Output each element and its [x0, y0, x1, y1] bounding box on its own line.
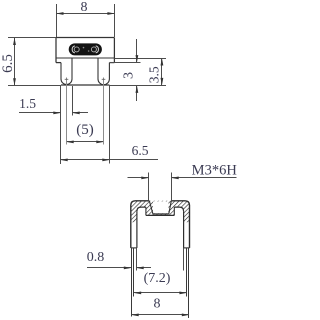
centerline right slot	[103, 80, 105, 145]
wire plate left edge	[55, 38, 57, 63]
arrow 0.8 right-pointing	[124, 267, 132, 270]
svg-text:1.5: 1.5	[19, 96, 36, 111]
obround slot filled	[69, 43, 102, 55]
dimension 1.5 right line	[73, 112, 89, 114]
arrow 3 down-pointing	[136, 55, 139, 63]
arrow 0.8 left-pointing	[136, 267, 144, 270]
extension line dim8 right	[114, 4, 116, 37]
section outer profile left	[131, 201, 150, 248]
arrow dim8 right	[107, 12, 115, 15]
svg-text:6.5: 6.5	[132, 143, 149, 158]
section outer profile right	[171, 201, 189, 248]
leg step left	[131, 247, 137, 249]
extension plate bottom right for 3.5	[114, 58, 166, 60]
arrow 6.5B left	[60, 159, 67, 162]
obround cap arc right	[96, 46, 99, 53]
extension leg inner face left for 0.8	[136, 248, 138, 271]
dimension line 8 bottom	[132, 314, 190, 316]
slot left outer wall	[60, 63, 62, 79]
slot left inner wall	[71, 58, 73, 79]
thread boss bottom	[146, 214, 174, 216]
arrow (5) right	[96, 141, 104, 144]
centerline left slot	[66, 80, 68, 145]
thread hole bottom	[153, 213, 169, 215]
slot left bottom arc	[61, 79, 72, 85]
lower leg left inner line	[133, 248, 135, 296]
arrow 3.5 down	[161, 78, 164, 86]
0.8 dimension right line	[137, 267, 152, 269]
leg step right	[184, 247, 190, 249]
extension part bottom right for 3 and 3.5	[109, 85, 166, 87]
arrow 7.2 right	[179, 292, 187, 295]
extension part right edge down	[109, 85, 111, 164]
thread boss left side	[145, 207, 147, 215]
dimension line 8 top	[57, 13, 115, 15]
extension line 6.5 bottom	[8, 85, 61, 87]
arrow 3 up-pointing	[136, 85, 139, 93]
inner wall right	[183, 211, 185, 248]
wire plate top edge	[56, 37, 114, 39]
wire plate bottom edge	[56, 57, 114, 59]
svg-text:M3*6H: M3*6H	[192, 163, 237, 179]
extension line slot right wall for 1.5	[72, 86, 74, 116]
obround interior specks	[83, 47, 85, 49]
svg-text:8: 8	[154, 297, 161, 312]
wire part bottom edge view1	[61, 84, 109, 86]
center mark left slot	[65, 78, 69, 82]
thread hole right flank	[169, 201, 172, 214]
arrow M3 left-pointing	[171, 177, 179, 180]
cavity top right with fillet	[174, 207, 183, 211]
thread hole white interior	[153, 201, 168, 213]
cavity top left with fillet	[137, 207, 146, 211]
arrow 6.5B right	[102, 159, 110, 162]
extension line 6.5 top	[8, 37, 56, 39]
svg-text:0.8: 0.8	[87, 250, 105, 265]
arrow 3.5 up	[161, 58, 164, 66]
extension M3 left	[148, 173, 150, 201]
slot right inner wall	[97, 58, 99, 79]
0.8 dimension left line	[87, 267, 131, 269]
dimension line 6.5 left	[14, 38, 16, 86]
slot right bottom arc	[98, 79, 109, 85]
dimension 3 lower line	[136, 86, 138, 102]
obround thread circle right	[91, 47, 96, 52]
svg-text:(5): (5)	[76, 122, 94, 138]
extension part left edge down	[60, 85, 62, 164]
thread hole left flank	[149, 201, 153, 214]
dimension 3 upper line	[136, 39, 138, 63]
arrow M3 right-pointing	[141, 177, 149, 180]
arrow 7.2 left	[134, 292, 142, 295]
extension M3 right	[171, 173, 173, 201]
wire plate right edge	[113, 38, 115, 63]
lower leg right outer line	[188, 248, 190, 318]
extension line dim8 left	[56, 4, 58, 37]
dimension line 3.5	[161, 58, 163, 85]
arrow 1.5 left-pointing	[72, 112, 80, 115]
arrow 8B left	[131, 314, 139, 317]
wire ear bottom left	[56, 62, 61, 64]
extension leg inner face right	[183, 248, 185, 271]
dimension line (7.2)	[134, 292, 187, 294]
extension step line right for 3	[109, 62, 140, 64]
dimension line (5)	[67, 141, 104, 143]
lower leg left outer line	[131, 248, 133, 317]
arrow 6.5L up	[13, 38, 16, 46]
thread boss right side	[173, 207, 175, 215]
arrow dim8 left	[56, 12, 64, 15]
svg-text:(7.2): (7.2)	[144, 271, 171, 286]
wire ear bottom right	[109, 62, 114, 64]
arrow 6.5L down	[13, 78, 16, 86]
obround cap arc left	[72, 46, 75, 53]
hatched section body	[131, 201, 190, 222]
M3 dimension right line with label underline	[172, 177, 237, 179]
lower leg right inner line	[186, 248, 188, 296]
arrow 8B right	[182, 314, 190, 317]
center mark right slot	[102, 78, 106, 82]
svg-text:6.5: 6.5	[0, 54, 16, 73]
slot right outer wall	[108, 63, 110, 79]
dimension line 6.5 bottom	[61, 159, 159, 161]
dimension 1.5 left line	[19, 112, 61, 114]
arrow (5) left	[66, 141, 74, 144]
svg-text:3: 3	[122, 72, 137, 79]
arrow 1.5 right-pointing	[53, 112, 61, 115]
svg-text:8: 8	[81, 0, 88, 15]
inner wall left	[136, 211, 138, 248]
M3 dimension left line	[128, 177, 149, 179]
obround thread circle left	[74, 47, 79, 52]
svg-text:3.5: 3.5	[146, 66, 161, 83]
